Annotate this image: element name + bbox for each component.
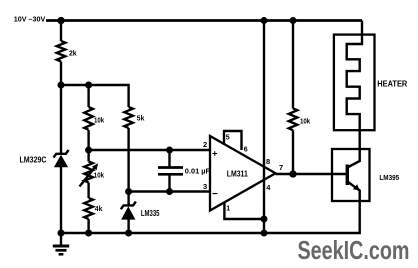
svg-text:SeekIC.com: SeekIC.com [298, 235, 410, 265]
svg-text:2: 2 [203, 140, 207, 149]
svg-text:−: − [212, 189, 218, 200]
svg-text:7: 7 [279, 163, 283, 172]
svg-text:4k: 4k [95, 204, 103, 213]
svg-text:LM329C: LM329C [20, 155, 47, 164]
svg-text:HEATER: HEATER [377, 80, 407, 89]
svg-text:6: 6 [244, 147, 248, 154]
svg-text:5: 5 [226, 135, 230, 142]
svg-text:LM311: LM311 [227, 168, 248, 178]
svg-text:3: 3 [203, 182, 207, 191]
svg-text:10k: 10k [300, 116, 311, 125]
svg-text:2k: 2k [69, 48, 77, 57]
svg-text:LM395: LM395 [379, 173, 399, 182]
svg-text:+: + [212, 149, 218, 160]
svg-text:10k: 10k [94, 116, 105, 125]
svg-text:5k: 5k [137, 113, 145, 122]
svg-text:1: 1 [226, 205, 230, 212]
svg-text:10V –30V: 10V –30V [14, 15, 46, 24]
svg-text:LM335: LM335 [141, 209, 160, 218]
svg-text:0.01 µF: 0.01 µF [185, 167, 211, 176]
svg-text:8: 8 [266, 157, 270, 166]
svg-text:10k: 10k [94, 170, 105, 179]
